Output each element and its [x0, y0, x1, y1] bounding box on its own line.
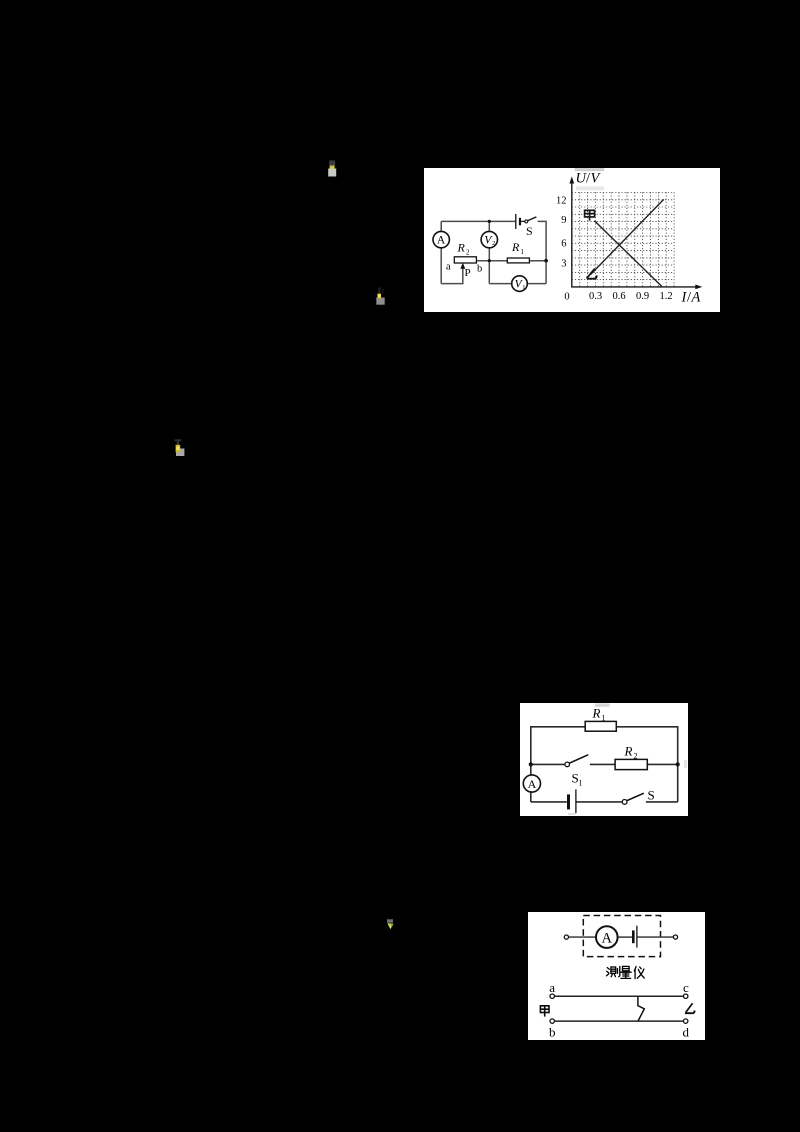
- wire ammeter down: [530, 792, 532, 802]
- wire right down: [677, 764, 679, 802]
- switch S: [525, 217, 537, 223]
- char ce: [607, 967, 609, 969]
- svg-text:12: 12: [556, 195, 567, 206]
- graph line falling (jia): [594, 221, 661, 287]
- right terminal: [673, 935, 677, 939]
- wire R1 to right: [529, 260, 546, 262]
- wire mid left: [531, 763, 565, 765]
- speck icon 2: [376, 287, 385, 305]
- figure 3: measuring box: [528, 912, 705, 1040]
- svg-text:6: 6: [561, 239, 566, 250]
- label yi (CJK) in graph: [587, 269, 597, 279]
- junction dot right: [676, 762, 680, 766]
- svg-text:3: 3: [561, 258, 566, 269]
- svg-text:A: A: [691, 290, 701, 306]
- svg-text:R: R: [592, 706, 601, 721]
- svg-text:b: b: [548, 1024, 555, 1039]
- faint smudge under battery: [568, 813, 576, 815]
- char liang: [622, 966, 629, 970]
- grey blob right edge: [684, 760, 687, 768]
- slider P arrow: [460, 263, 465, 269]
- rheostat R2 body: [454, 257, 476, 263]
- ammeter A: [523, 775, 540, 792]
- svg-text:A: A: [528, 777, 537, 791]
- switch S: [622, 793, 644, 804]
- svg-text:9: 9: [561, 215, 566, 226]
- resistor R1 body: [585, 721, 616, 731]
- wire top left: [531, 727, 585, 765]
- svg-text:d: d: [682, 1024, 689, 1039]
- svg-text:b: b: [477, 264, 482, 275]
- svg-text:a: a: [549, 980, 555, 995]
- graph line rising (yi): [591, 199, 664, 274]
- wire S to right: [646, 801, 678, 803]
- svg-text:2: 2: [466, 249, 470, 257]
- voltmeter V1: [512, 276, 528, 292]
- svg-text:R: R: [511, 240, 520, 254]
- svg-text:2: 2: [492, 240, 495, 247]
- svg-text:A: A: [437, 235, 446, 247]
- terminal c circle: [683, 994, 687, 998]
- resistor R2 body: [615, 759, 647, 769]
- dashed box: [583, 915, 660, 956]
- svg-text:1: 1: [521, 248, 525, 256]
- label ce-liang-yi (CJK): [606, 966, 644, 978]
- svg-text:1: 1: [602, 714, 606, 723]
- grey smudge 2: [576, 186, 604, 190]
- resistor R1 body: [507, 258, 529, 263]
- grey smudge top: [575, 168, 605, 171]
- figure 1: circuit + U-I graph: [424, 168, 720, 312]
- figure 2: R1/R2 parallel circuit: [520, 703, 688, 816]
- svg-text:1: 1: [522, 284, 525, 291]
- graph dotted grid: [572, 192, 674, 287]
- svg-text:2: 2: [634, 752, 638, 761]
- wire bottom left: [531, 801, 567, 803]
- speck icon 3: [174, 439, 185, 457]
- svg-text:a: a: [446, 262, 451, 273]
- battery B1: [516, 214, 525, 229]
- wire right side: [538, 221, 547, 283]
- junction dot right: [544, 259, 548, 263]
- svg-text:R: R: [624, 744, 633, 759]
- wire b-d: [554, 1020, 683, 1022]
- speck icon 4: [386, 919, 394, 930]
- label yi (CJK) right: [684, 1003, 694, 1013]
- svg-text:S: S: [648, 788, 655, 803]
- wire ammeter-battery: [617, 936, 632, 938]
- wire V2 top lead: [488, 221, 490, 231]
- label jia (CJK) left: [540, 1005, 549, 1016]
- speck icon 1: [328, 160, 337, 177]
- wire R2b to R1: [476, 260, 507, 262]
- wire mid R2 to right: [647, 763, 677, 765]
- ammeter A1: [433, 231, 449, 247]
- wire battery to S: [576, 801, 622, 803]
- ammeter A: [596, 926, 618, 948]
- junction dot top: [488, 220, 491, 223]
- grey smudge above R1: [595, 703, 610, 706]
- wire left down to ammeter: [440, 221, 442, 231]
- wire top right: [616, 727, 677, 765]
- voltmeter V2: [481, 231, 497, 247]
- svg-text:0.9: 0.9: [636, 291, 649, 302]
- wire ammeter to bottom: [440, 248, 442, 284]
- char yi2: [634, 966, 636, 970]
- svg-text:V: V: [591, 171, 602, 187]
- wire bottom to V1: [489, 283, 512, 285]
- right lead wire: [637, 936, 674, 938]
- terminal a circle: [550, 994, 554, 998]
- junction dot left: [529, 762, 533, 766]
- svg-text:R: R: [457, 241, 466, 255]
- internal zigzag wire: [637, 996, 643, 1021]
- graph axes: [571, 182, 697, 288]
- svg-text:P: P: [465, 267, 471, 279]
- svg-text:1: 1: [579, 779, 583, 788]
- battery: [567, 794, 570, 809]
- terminal d circle: [683, 1018, 687, 1022]
- left lead wire: [568, 936, 596, 938]
- label jia (CJK) in graph: [585, 210, 595, 220]
- svg-text:0.6: 0.6: [613, 291, 626, 302]
- svg-text:A: A: [601, 930, 612, 946]
- junction dot mid V2: [488, 259, 491, 262]
- svg-text:0.3: 0.3: [589, 291, 602, 302]
- wire V2 bottom lead down: [488, 248, 490, 284]
- svg-text:c: c: [683, 980, 689, 995]
- svg-text:1.2: 1.2: [660, 291, 673, 302]
- battery: [632, 930, 635, 943]
- wire bottom-left to slider: [441, 268, 463, 284]
- wire top: [441, 220, 515, 222]
- svg-text:0: 0: [564, 292, 569, 303]
- svg-text:S: S: [526, 224, 533, 238]
- wire left to ammeter: [530, 764, 532, 775]
- wire V1 to right: [527, 283, 546, 285]
- left terminal: [564, 935, 568, 939]
- terminal b circle: [550, 1018, 554, 1022]
- switch S1: [565, 755, 588, 767]
- wire a-c: [554, 995, 683, 997]
- wire mid S1 to R2: [590, 763, 615, 765]
